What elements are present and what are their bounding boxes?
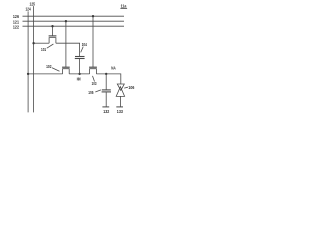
wire: node NA row from Q103 to diode corner xyxy=(96,74,120,84)
svg-text:122: 122 xyxy=(13,24,20,29)
capacitor C104 top plate xyxy=(75,56,85,58)
wire: node row from line 124 to transistor 102 xyxy=(28,73,63,75)
junction dot at node NM xyxy=(78,73,80,75)
terminal bar 132 xyxy=(102,106,109,108)
diode D106 lower (triangle pointing up) xyxy=(116,87,124,97)
diode D106 upper (triangle pointing down) xyxy=(117,84,124,90)
transistor Q103 gate bar xyxy=(89,66,97,68)
leader line for label 106 xyxy=(124,86,128,89)
wire: C105 bottom lead to terminal 132 xyxy=(105,92,107,107)
transistor Q103 channel bump xyxy=(90,69,97,74)
transistor Q102 channel bump xyxy=(63,69,70,74)
leader line for label 101 xyxy=(47,44,54,48)
wire: line 121 branch down to gate of transistor 102 xyxy=(65,21,67,67)
svg-text:125: 125 xyxy=(30,1,36,7)
svg-text:NA: NA xyxy=(111,66,116,71)
wire: diode lower lead to terminal 133 xyxy=(120,96,122,107)
scan line 121 xyxy=(23,20,125,22)
svg-text:104: 104 xyxy=(82,42,88,47)
junction dot on line 121 xyxy=(65,20,67,22)
underline of region label 11a xyxy=(120,8,127,10)
signal line 124 (vertical) xyxy=(27,11,29,112)
junction dot on line 124 xyxy=(27,73,29,75)
scan line 122 xyxy=(23,25,125,27)
leader line for label 102 xyxy=(52,68,60,71)
capacitor C104 bottom plate xyxy=(75,58,85,60)
transistor Q102 gate bar xyxy=(62,66,70,68)
transistor Q101 channel bump xyxy=(49,38,56,44)
wire: source of Q101 to line 125 xyxy=(34,42,50,44)
scan line 126 xyxy=(23,15,125,17)
junction dot on line 126 xyxy=(92,15,94,17)
svg-text:101: 101 xyxy=(41,47,47,52)
junction dot on line 122 xyxy=(51,25,53,27)
transistor Q101 gate bar xyxy=(49,35,57,37)
leader line for label 103 xyxy=(93,76,95,82)
wire: NM node between Q102 and Q103 xyxy=(69,73,89,75)
svg-text:132: 132 xyxy=(103,109,110,115)
wire: line 126 branch down to gate of transistor 103 xyxy=(92,16,94,67)
svg-text:124: 124 xyxy=(26,7,32,12)
leader line for label 104 xyxy=(81,47,84,53)
wire: C104 bottom lead to node NM xyxy=(79,59,81,74)
svg-text:102: 102 xyxy=(46,64,52,70)
signal line 125 (vertical) xyxy=(33,6,35,112)
wire: gate stem of transistor 101 from line 122 xyxy=(52,26,54,36)
capacitor C105 bottom plate xyxy=(102,91,111,93)
wire: C105 top lead from node NA xyxy=(105,74,107,90)
svg-text:105: 105 xyxy=(88,91,94,96)
junction dot at node NA xyxy=(105,73,107,75)
svg-text:103: 103 xyxy=(92,82,97,87)
leader line for label 105 xyxy=(95,90,101,92)
junction dot on line 125 xyxy=(32,42,34,44)
svg-text:11a: 11a xyxy=(121,3,128,8)
svg-text:133: 133 xyxy=(117,109,124,114)
wire: drain of Q101 to capacitor 104 corner xyxy=(56,43,80,56)
svg-text:106: 106 xyxy=(128,85,135,91)
terminal bar 133 xyxy=(116,106,123,108)
svg-text:NM: NM xyxy=(77,77,81,82)
capacitor C105 top plate xyxy=(102,89,111,91)
